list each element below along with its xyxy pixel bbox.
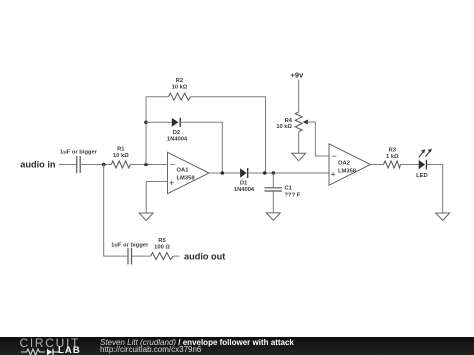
node junction R2 return [263, 171, 267, 175]
wire cap to R1 [81, 164, 112, 166]
svg-text:C1: C1 [285, 186, 293, 192]
node OA1 output junction [221, 171, 225, 175]
footer title line [100, 338, 294, 347]
svg-text:10 kΩ: 10 kΩ [172, 85, 188, 91]
footer url line [100, 345, 201, 354]
wire R4 wiper to OA2 minus input [315, 122, 329, 156]
svg-text:−: − [170, 159, 175, 169]
node junction C1 [272, 171, 276, 175]
diode D2 [172, 118, 180, 127]
wire audio-in lead [59, 164, 76, 166]
wire feedback vertical [145, 97, 147, 165]
wire D1 to OA2 plus input [248, 172, 329, 174]
node junction feedback [144, 163, 148, 167]
svg-text:+9v: +9v [291, 71, 305, 80]
wire R2 to right corner down to output node [191, 97, 266, 173]
svg-text:1N4004: 1N4004 [167, 136, 188, 142]
svg-text:R2: R2 [176, 78, 183, 84]
capacitor CIN (1uF or bigger) [77, 156, 81, 173]
wire OA1 output [209, 172, 240, 174]
svg-text:LM358: LM358 [338, 168, 357, 174]
svg-text:OA2: OA2 [338, 160, 350, 166]
CircuitLab logo wordmark LAB [58, 345, 81, 355]
svg-text:LM358: LM358 [177, 175, 196, 181]
resistor R3 [384, 161, 401, 168]
wire audio-out branch vertical [104, 165, 128, 257]
diode D1 [240, 168, 248, 178]
svg-text:R4: R4 [285, 118, 293, 124]
wire R4 bottom to ground [298, 132, 300, 154]
ground (LED) [436, 213, 450, 221]
op-amp OA2 [329, 144, 371, 185]
resistor R2 [169, 93, 191, 100]
svg-text:R1: R1 [117, 146, 125, 152]
LED D3 [419, 149, 432, 170]
svg-text:1uF or bigger: 1uF or bigger [60, 150, 98, 156]
svg-text:+: + [331, 170, 336, 180]
op-amp OA1 [168, 152, 210, 193]
wire R2 branch top [146, 96, 169, 98]
ground (R4) [292, 153, 306, 161]
svg-text:100 Ω: 100 Ω [154, 245, 170, 251]
svg-text:1N4004: 1N4004 [234, 187, 255, 193]
wire R1 to OA1 minus input [130, 164, 167, 166]
svg-text:R3: R3 [389, 148, 397, 154]
CircuitLab logo wordmark CIRCUIT [20, 336, 81, 350]
svg-text:??? F: ??? F [285, 192, 301, 198]
wire OA2 output to R3 [371, 164, 384, 166]
svg-text:10 kΩ: 10 kΩ [276, 124, 292, 130]
svg-text:D2: D2 [173, 130, 180, 136]
svg-text:10 kΩ: 10 kΩ [113, 153, 129, 159]
footer bar [0, 337, 474, 355]
svg-text:LED: LED [416, 173, 428, 179]
potentiometer R4 [295, 112, 315, 132]
svg-text:1 kΩ: 1 kΩ [386, 154, 399, 160]
capacitor C1 [265, 173, 283, 213]
ground (OA1 plus) [139, 213, 153, 221]
svg-text:audio out: audio out [184, 252, 225, 262]
wire +9v to R4 [298, 80, 300, 113]
svg-text:audio in: audio in [20, 160, 56, 170]
wire R3 to LED [400, 164, 418, 166]
resistor R5 [151, 253, 174, 260]
node junction input/audio-out [102, 163, 106, 167]
svg-text:D1: D1 [240, 181, 248, 187]
wire R5 out [173, 255, 179, 257]
svg-text:+: + [169, 178, 174, 188]
resistor R1 [111, 161, 130, 168]
wire OA1 plus input to ground [146, 182, 167, 214]
svg-text:OA1: OA1 [177, 167, 190, 173]
node junction D2 branch [144, 121, 148, 125]
wire D2 to corner down to output node [181, 122, 223, 173]
wire cap to R5 [132, 255, 151, 257]
wire D2 branch left [146, 121, 172, 123]
CircuitLab logo waveform [21, 348, 61, 355]
svg-text:1uF or bigger: 1uF or bigger [111, 242, 149, 248]
svg-text:R5: R5 [158, 238, 166, 244]
svg-text:−: − [332, 151, 337, 161]
wire LED to ground [427, 165, 443, 214]
capacitor COUT (1uF or bigger) [128, 248, 132, 265]
ground (C1) [266, 213, 280, 221]
